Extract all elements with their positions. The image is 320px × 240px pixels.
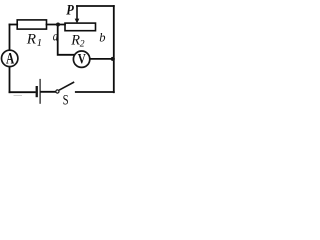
- wire node a down to voltmeter: [58, 25, 75, 55]
- svg-text:V: V: [78, 52, 86, 68]
- ammeter A1 circle: [2, 50, 18, 66]
- arrowhead of wiper P: [75, 19, 80, 24]
- wire wiper top horizontal: [77, 5, 114, 7]
- svg-text:a: a: [53, 30, 58, 45]
- switch S pivot circle: [56, 90, 59, 93]
- svg-text:S: S: [63, 92, 69, 106]
- svg-text:b: b: [99, 31, 105, 45]
- scan noise dash bottom-left: [14, 95, 23, 96]
- voltmeter V circle: [73, 51, 89, 67]
- wire top-left stub: [10, 24, 18, 26]
- rheostat R2: [65, 23, 96, 31]
- wire R1 to node a: [47, 24, 66, 26]
- wire left vertical top segment: [9, 25, 11, 50]
- svg-text:A: A: [6, 50, 15, 67]
- wire left vertical bottom segment: [9, 67, 11, 92]
- switch S blade: [59, 82, 74, 90]
- wire right vertical: [113, 6, 115, 92]
- wire voltmeter to right wire: [90, 58, 113, 60]
- wire battery to switch: [41, 91, 56, 93]
- svg-text:P: P: [66, 2, 74, 18]
- wire bottom: left corner to battery: [10, 91, 35, 93]
- battery short thick plate: [36, 86, 38, 97]
- wire switch to bottom-right corner: [76, 91, 114, 93]
- node dot between R1 and R2: [56, 23, 60, 27]
- node dot voltmeter to right wire: [111, 57, 115, 61]
- battery long plate: [40, 79, 41, 104]
- wiper arrow of rheostat: [76, 6, 78, 20]
- resistor R1: [17, 20, 46, 29]
